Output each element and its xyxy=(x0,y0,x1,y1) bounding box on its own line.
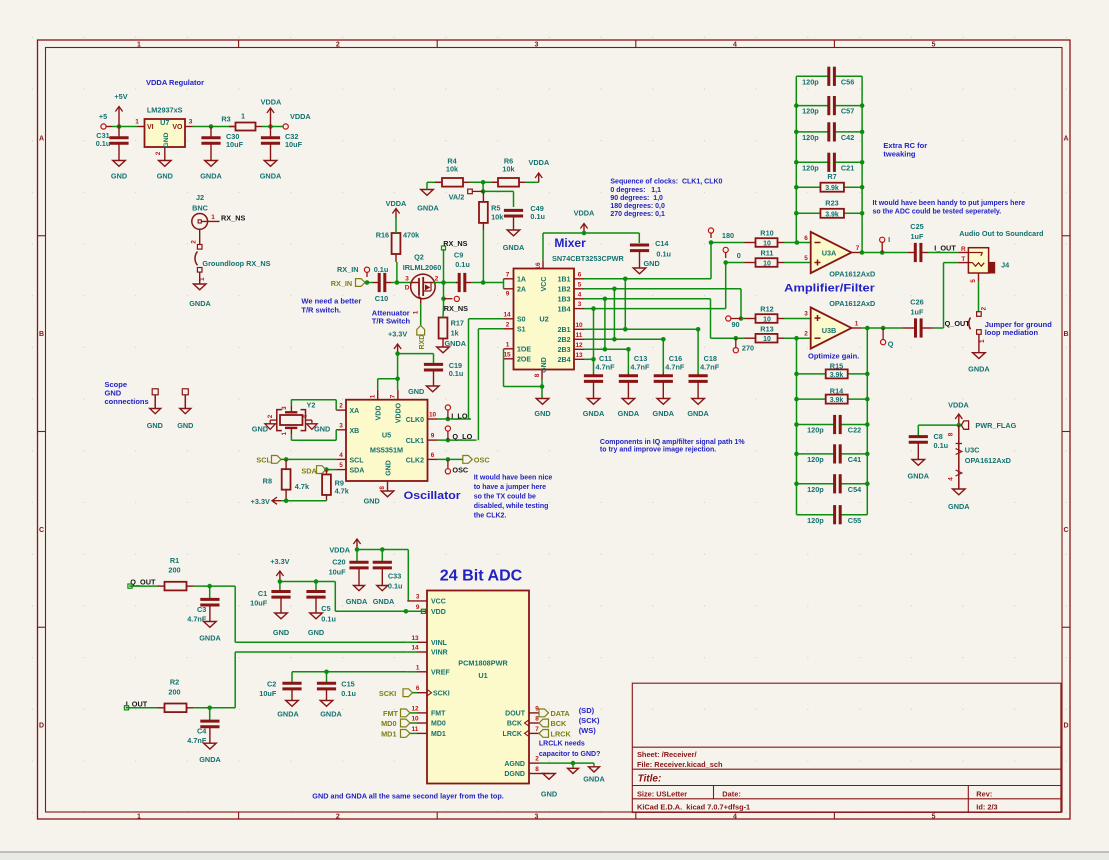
svg-text:GND: GND xyxy=(252,425,268,434)
svg-text:S0: S0 xyxy=(517,317,526,324)
hier label SCKID xyxy=(379,689,417,698)
IC U2 SN74CBT3253CPWR xyxy=(503,260,584,379)
wire 1B2 row xyxy=(584,288,741,290)
title block xyxy=(632,683,1061,812)
svg-text:C55: C55 xyxy=(848,516,861,525)
svg-text:GNDA: GNDA xyxy=(200,172,222,181)
svg-text:I: I xyxy=(888,235,890,244)
junction +3.3V osc xyxy=(395,351,400,356)
svg-text:OSC: OSC xyxy=(452,465,469,474)
svg-text:OSC: OSC xyxy=(474,456,491,465)
capacitor C25 xyxy=(908,222,928,262)
svg-text:1: 1 xyxy=(416,664,420,671)
svg-text:GNDA: GNDA xyxy=(199,755,221,764)
svg-text:SN74CBT3253CPWR: SN74CBT3253CPWR xyxy=(552,254,625,263)
svg-text:LRCK: LRCK xyxy=(503,731,522,738)
svg-text:capacitor to GND?: capacitor to GND? xyxy=(539,751,600,758)
svg-text:2: 2 xyxy=(155,151,162,155)
resistor R16 xyxy=(376,218,420,283)
svg-text:0.1u: 0.1u xyxy=(388,582,403,591)
capacitor C32 xyxy=(261,127,303,161)
junction C4 xyxy=(207,706,212,711)
capacitor C2 xyxy=(259,680,301,701)
svg-text:GND: GND xyxy=(163,132,170,147)
svg-text:1A: 1A xyxy=(517,277,526,284)
svg-text:GNDA: GNDA xyxy=(199,634,221,643)
power flag PWR_FLAG xyxy=(961,421,1016,430)
svg-text:U7: U7 xyxy=(160,118,169,127)
text LRCLK needs cap xyxy=(539,741,600,758)
svg-text:10uF: 10uF xyxy=(329,568,347,577)
wire 2B2 row xyxy=(584,338,663,340)
svg-text:2: 2 xyxy=(336,813,340,820)
capacitor C31 xyxy=(96,127,129,161)
svg-text:VDD: VDD xyxy=(431,609,446,616)
power +5V xyxy=(114,92,127,127)
wire U3B out xyxy=(862,327,903,329)
svg-text:FMT: FMT xyxy=(431,711,446,718)
svg-text:GND: GND xyxy=(308,628,324,637)
wire R4 to R6 xyxy=(470,181,499,183)
svg-text:4: 4 xyxy=(733,42,737,49)
junction C30 xyxy=(209,124,214,129)
capacitor C55 xyxy=(797,505,868,525)
text jumper note osc xyxy=(474,474,553,519)
svg-text:It would have been handy to pu: It would have been handy to put jumpers … xyxy=(873,200,1026,207)
capacitor C41 xyxy=(797,444,868,464)
resistor R1 xyxy=(158,556,194,590)
transistor Q2 IRLML2060 xyxy=(403,253,442,315)
svg-text:180: 180 xyxy=(722,231,734,240)
svg-text:OPA1612AxD: OPA1612AxD xyxy=(829,299,875,308)
svg-text:GND: GND xyxy=(644,259,660,268)
svg-text:120p: 120p xyxy=(807,455,824,464)
resistor R10 xyxy=(745,229,785,248)
svg-text:Components in IQ amp/filter si: Components in IQ amp/filter signal path … xyxy=(600,439,745,446)
svg-text:2: 2 xyxy=(506,321,510,328)
svg-text:9: 9 xyxy=(431,433,435,440)
junction mixer vdda xyxy=(582,231,587,236)
svg-text:IRLML2060: IRLML2060 xyxy=(403,263,442,272)
svg-text:VDDA: VDDA xyxy=(261,98,282,107)
svg-text:C15: C15 xyxy=(341,680,354,689)
svg-text:0.1u: 0.1u xyxy=(449,369,464,378)
svg-text:10uF: 10uF xyxy=(259,689,277,698)
svg-text:VINR: VINR xyxy=(431,650,448,657)
svg-text:R10: R10 xyxy=(760,229,773,238)
crystal Y2 xyxy=(265,401,317,436)
svg-text:1: 1 xyxy=(137,42,141,49)
svg-text:10uF: 10uF xyxy=(250,598,268,607)
svg-text:C56: C56 xyxy=(841,77,854,86)
wire SCL xyxy=(281,458,336,460)
resistor R8 xyxy=(263,459,310,500)
svg-text:Size: USLetter: Size: USLetter xyxy=(637,790,687,799)
svg-text:(SD): (SD) xyxy=(579,706,595,715)
svg-text:B: B xyxy=(1063,331,1068,338)
wire XA to Y2 xyxy=(335,400,337,410)
svg-text:VO: VO xyxy=(172,124,183,131)
svg-text:U5: U5 xyxy=(382,431,391,440)
svg-text:A: A xyxy=(1063,135,1068,142)
junction ladder B C41 xyxy=(794,452,799,457)
hier label DATA xyxy=(539,709,570,718)
svg-text:GNDA: GNDA xyxy=(503,243,525,252)
svg-text:to have a jumper here: to have a jumper here xyxy=(474,484,546,491)
svg-text:8: 8 xyxy=(535,766,539,773)
resistor R7 xyxy=(794,172,864,192)
junction R16 bottom xyxy=(395,280,400,285)
svg-text:6: 6 xyxy=(578,271,582,278)
svg-text:16: 16 xyxy=(535,262,542,270)
junction RX_IN xyxy=(365,280,370,285)
svg-text:10: 10 xyxy=(763,240,771,247)
junction CLK2 xyxy=(446,457,451,462)
junction C5 xyxy=(314,579,319,584)
svg-text:MS5351M: MS5351M xyxy=(370,446,403,455)
capacitor C5 xyxy=(306,582,336,624)
junction RF-R5 xyxy=(481,280,486,285)
wire +3.3V down xyxy=(397,354,399,390)
svg-text:MD1: MD1 xyxy=(431,731,446,738)
svg-text:DGND: DGND xyxy=(504,771,525,778)
svg-text:R1: R1 xyxy=(170,556,179,565)
svg-text:RX_NS: RX_NS xyxy=(443,239,467,248)
svg-text:C3: C3 xyxy=(197,605,206,614)
ground GNDA C2 xyxy=(277,701,299,719)
svg-text:RX_NS: RX_NS xyxy=(221,213,245,222)
capacitor C33 xyxy=(373,550,403,591)
svg-text:1: 1 xyxy=(855,321,859,328)
svg-text:RXD: RXD xyxy=(419,335,426,350)
svg-text:120p: 120p xyxy=(807,426,824,435)
svg-text:VDDA: VDDA xyxy=(574,208,595,217)
svg-text:CLK0: CLK0 xyxy=(406,417,424,424)
svg-text:1uF: 1uF xyxy=(911,232,925,241)
svg-text:4: 4 xyxy=(578,291,582,298)
svg-text:R3: R3 xyxy=(221,115,230,124)
wire U3A out xyxy=(862,252,908,254)
svg-text:LRCLK needs: LRCLK needs xyxy=(539,741,585,748)
text Scope GND connections xyxy=(105,380,149,406)
wire 180 down xyxy=(710,243,712,279)
junction C3 xyxy=(207,584,212,589)
svg-text:2B2: 2B2 xyxy=(558,337,571,344)
svg-text:GNDA: GNDA xyxy=(653,409,675,418)
wire pin8 gnd xyxy=(541,380,543,387)
svg-text:10uF: 10uF xyxy=(285,140,303,149)
svg-text:2B3: 2B3 xyxy=(558,347,571,354)
svg-text:4: 4 xyxy=(302,414,309,418)
wire vdda to pin16 xyxy=(543,232,584,234)
svg-text:10uF: 10uF xyxy=(226,140,244,149)
resistor R3 xyxy=(221,112,262,131)
junction pullup xyxy=(284,498,289,503)
svg-text:270: 270 xyxy=(742,343,754,352)
svg-text:C22: C22 xyxy=(848,426,861,435)
svg-text:8: 8 xyxy=(534,373,541,377)
svg-text:Q_LO: Q_LO xyxy=(452,432,472,441)
svg-text:180 degrees: 0,0: 180 degrees: 0,0 xyxy=(610,203,665,210)
svg-text:SDA: SDA xyxy=(350,468,365,475)
svg-text:C20: C20 xyxy=(332,558,345,567)
ground GNDA U3C xyxy=(948,489,970,511)
wire J4 sleeve down xyxy=(978,281,980,311)
svg-text:C8: C8 xyxy=(934,432,943,441)
power VDDA pwrflag xyxy=(948,401,969,426)
wire CLK1 out xyxy=(438,439,477,441)
label 0 testpoint xyxy=(723,247,741,260)
svg-text:2: 2 xyxy=(435,276,439,283)
svg-text:4.7nF: 4.7nF xyxy=(596,362,616,371)
junction Q2 drain xyxy=(441,280,446,285)
net tie jumper gnd loop xyxy=(969,307,988,353)
svg-text:10k: 10k xyxy=(502,165,515,174)
svg-text:SCL: SCL xyxy=(350,457,365,464)
svg-text:R12: R12 xyxy=(760,305,773,314)
wire ladder B rails xyxy=(797,328,868,515)
ground GNDA C32 xyxy=(260,161,282,181)
junction U3B out rail xyxy=(865,326,870,331)
wire QOUT to VINL xyxy=(234,586,236,642)
svg-text:1B4: 1B4 xyxy=(558,306,571,313)
svg-text:5: 5 xyxy=(578,281,582,288)
capacitor C21 xyxy=(796,153,862,173)
svg-text:GNDA: GNDA xyxy=(908,471,930,480)
svg-text:R14: R14 xyxy=(830,386,844,395)
svg-text:+3.3V: +3.3V xyxy=(270,557,289,566)
svg-text:GND: GND xyxy=(534,409,550,418)
svg-text:GNDA: GNDA xyxy=(320,710,342,719)
svg-text:C: C xyxy=(1063,527,1068,534)
resistor R13 xyxy=(745,324,785,343)
svg-text:5: 5 xyxy=(932,42,936,49)
svg-text:GNDA: GNDA xyxy=(277,710,299,719)
svg-text:120p: 120p xyxy=(802,133,819,142)
svg-text:R8: R8 xyxy=(263,477,272,486)
svg-text:GNDA: GNDA xyxy=(260,172,282,181)
junction C33 xyxy=(380,547,385,552)
svg-text:C1: C1 xyxy=(258,589,267,598)
svg-text:9: 9 xyxy=(506,291,510,298)
junction RX_NS tp xyxy=(441,296,446,301)
hier label RXD xyxy=(417,326,426,350)
wire 2B1 row xyxy=(584,328,698,330)
IC U1 PCM1808PWR xyxy=(407,591,539,784)
svg-text:I_OUT: I_OUT xyxy=(934,244,956,253)
wire 1B1 row xyxy=(584,278,711,280)
svg-text:4: 4 xyxy=(733,813,737,820)
svg-text:90 degrees: 1,0: 90 degrees: 1,0 xyxy=(610,195,663,202)
wire C30 to R3 xyxy=(211,126,236,128)
junction C15 rail xyxy=(324,670,329,675)
wire RX_IND to C10 xyxy=(365,282,373,284)
wire Q_OUT in xyxy=(129,585,157,587)
wire U7.VO to C30 xyxy=(193,126,212,128)
wire 2B3 row xyxy=(584,348,628,350)
svg-text:MD0: MD0 xyxy=(431,721,446,728)
svg-text:GNDA: GNDA xyxy=(417,204,439,213)
svg-text:J2: J2 xyxy=(196,193,204,202)
svg-text:3: 3 xyxy=(534,42,538,49)
junction 270 xyxy=(734,336,739,341)
wire OE bracket xyxy=(503,349,505,359)
svg-text:VREF: VREF xyxy=(431,670,450,677)
svg-text:C26: C26 xyxy=(910,298,923,307)
text we need a better xyxy=(301,297,361,315)
label Q testpoint xyxy=(881,328,894,349)
svg-text:11: 11 xyxy=(412,726,419,733)
hier label MD0D xyxy=(381,719,417,728)
svg-text:RX_IN: RX_IN xyxy=(337,265,359,274)
svg-text:It would have been nice: It would have been nice xyxy=(474,474,553,481)
svg-text:S1: S1 xyxy=(517,327,526,334)
svg-text:MD1: MD1 xyxy=(381,729,396,738)
svg-text:1: 1 xyxy=(211,214,215,221)
svg-text:LM2937xS: LM2937xS xyxy=(147,106,183,115)
wire 90 to R12 xyxy=(741,318,745,320)
svg-text:0.1u: 0.1u xyxy=(455,260,470,269)
connector J2 BNC xyxy=(191,193,220,244)
capacitor C42 xyxy=(796,122,862,142)
svg-text:120p: 120p xyxy=(802,107,819,116)
wire R13 to pin2 xyxy=(784,337,811,339)
svg-text:J4: J4 xyxy=(1001,261,1010,270)
svg-text:1: 1 xyxy=(506,341,510,348)
resistor R23 xyxy=(794,198,864,218)
svg-text:2B4: 2B4 xyxy=(558,357,571,364)
svg-text:10k: 10k xyxy=(446,165,459,174)
svg-text:1B3: 1B3 xyxy=(558,297,571,304)
wire 1A2A bracket xyxy=(503,279,505,289)
svg-text:T: T xyxy=(961,256,965,263)
hier label SDAD xyxy=(301,466,326,476)
ground GNDA C8 xyxy=(908,460,930,481)
wire XB to Y2 xyxy=(335,430,337,441)
ground GND dgnd xyxy=(541,774,557,799)
wire Q2 to C9 xyxy=(433,282,457,284)
svg-text:C57: C57 xyxy=(841,107,854,116)
svg-text:Mixer: Mixer xyxy=(554,236,586,250)
svg-text:13: 13 xyxy=(575,352,583,359)
svg-text:12: 12 xyxy=(411,705,419,712)
svg-text:loop mediation: loop mediation xyxy=(985,328,1039,337)
svg-text:VDDA Regulator: VDDA Regulator xyxy=(146,78,204,87)
ground GNDA R4 xyxy=(417,182,439,212)
wire R10 to pin6 xyxy=(784,242,811,244)
svg-text:RX_IN: RX_IN xyxy=(331,279,353,288)
svg-text:XA: XA xyxy=(350,408,360,415)
ground GNDA C49 xyxy=(503,230,525,252)
wire vdda to C14 xyxy=(584,232,639,234)
svg-text:BCK: BCK xyxy=(551,719,568,728)
op-amp U3C power xyxy=(948,425,1011,489)
junction VDDA adc xyxy=(355,547,360,552)
svg-text:3: 3 xyxy=(339,422,343,429)
power +3.3V adc xyxy=(270,557,289,582)
power +3.3V pullups xyxy=(251,497,281,506)
ground GNDA jumper xyxy=(968,353,990,374)
capacitor C56 xyxy=(796,67,862,87)
ground GND C31 xyxy=(111,161,127,181)
wire vref rail xyxy=(292,671,407,673)
junction AGND xyxy=(571,761,576,766)
junction fb A xyxy=(795,240,800,245)
svg-text:C2: C2 xyxy=(267,680,276,689)
power VDDA regulator output xyxy=(261,98,282,127)
junction ladder A C21 xyxy=(794,160,799,165)
wire 0 to R11 xyxy=(726,262,745,264)
wire +3.3V to C19 xyxy=(398,353,434,355)
resistor R11 xyxy=(745,249,785,268)
text sequence of clocks xyxy=(610,179,722,218)
svg-text:VDDA: VDDA xyxy=(948,401,969,410)
ground GNDA C33 xyxy=(373,586,395,607)
svg-text:R16: R16 xyxy=(376,230,389,239)
svg-text:MD0: MD0 xyxy=(381,719,396,728)
svg-text:RX_NS: RX_NS xyxy=(444,304,468,313)
svg-text:C14: C14 xyxy=(655,239,669,248)
svg-text:1k: 1k xyxy=(451,328,460,337)
svg-text:2OE: 2OE xyxy=(517,357,531,364)
svg-text:0.1u: 0.1u xyxy=(934,441,949,450)
capacitor C57 xyxy=(796,96,862,116)
svg-text:4.7nF: 4.7nF xyxy=(665,362,685,371)
op-amp U3A xyxy=(804,232,862,273)
svg-text:VINL: VINL xyxy=(431,640,448,647)
wire 2B4 row xyxy=(584,358,594,360)
svg-text:120p: 120p xyxy=(802,77,819,86)
capacitor C22 xyxy=(797,415,868,435)
junction I tp xyxy=(880,250,885,255)
svg-text:7: 7 xyxy=(856,245,860,252)
resistor R15 xyxy=(794,361,869,379)
svg-text:GNDA: GNDA xyxy=(189,299,211,308)
svg-text:1: 1 xyxy=(137,813,141,820)
wire ladder A rails xyxy=(796,76,862,252)
svg-text:Oscillator: Oscillator xyxy=(404,490,462,502)
text components IQ xyxy=(600,439,745,454)
ground GNDA C30 xyxy=(200,161,222,181)
svg-text:10k: 10k xyxy=(491,213,504,222)
svg-text:3.9k: 3.9k xyxy=(830,397,844,404)
svg-text:to try and improve image rejec: to try and improve image rejection. xyxy=(600,447,716,454)
svg-text:+5V: +5V xyxy=(114,92,127,101)
resistor R12 xyxy=(745,305,785,324)
svg-text:120p: 120p xyxy=(802,163,819,172)
svg-text:GND: GND xyxy=(157,172,173,181)
svg-text:3: 3 xyxy=(804,311,808,318)
svg-text:the CLK2.: the CLK2. xyxy=(474,512,507,519)
svg-text:1: 1 xyxy=(135,119,139,126)
svg-text:10: 10 xyxy=(411,716,419,723)
svg-text:10: 10 xyxy=(763,260,771,267)
svg-text:Q2: Q2 xyxy=(414,253,424,262)
svg-text:T/R Switch: T/R Switch xyxy=(372,317,411,326)
svg-text:VA/2: VA/2 xyxy=(449,192,465,201)
svg-text:A: A xyxy=(39,135,44,142)
svg-text:5: 5 xyxy=(804,255,808,262)
capacitor C54 xyxy=(797,474,868,494)
svg-text:0.1u: 0.1u xyxy=(96,139,111,148)
svg-text:7: 7 xyxy=(390,394,397,398)
svg-text:AGND: AGND xyxy=(504,761,525,768)
wire 0 down xyxy=(725,263,727,309)
svg-text:14: 14 xyxy=(503,311,511,318)
svg-text:GNDA: GNDA xyxy=(968,365,990,374)
svg-text:470k: 470k xyxy=(403,230,420,239)
svg-text:4.7k: 4.7k xyxy=(335,487,350,496)
